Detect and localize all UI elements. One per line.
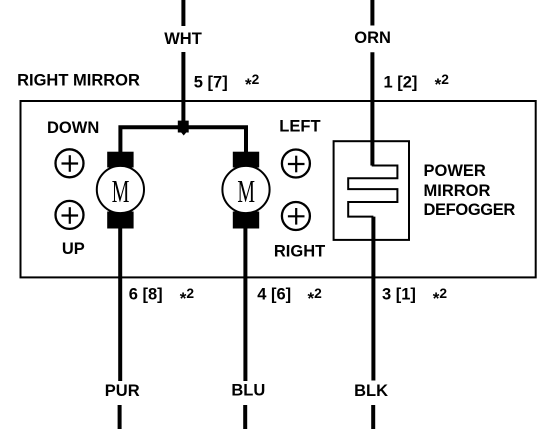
svg-text:DOWN: DOWN xyxy=(47,119,99,137)
svg-text:BLK: BLK xyxy=(354,382,388,400)
svg-text:*2: *2 xyxy=(308,286,323,308)
svg-text:WHT: WHT xyxy=(164,30,202,48)
svg-text:MIRROR: MIRROR xyxy=(424,182,491,200)
svg-text:4 [6]: 4 [6] xyxy=(257,286,291,304)
svg-text:*2: *2 xyxy=(245,72,260,94)
svg-text:PUR: PUR xyxy=(105,382,140,400)
svg-text:DEFOGGER: DEFOGGER xyxy=(424,201,516,219)
svg-text:*2: *2 xyxy=(433,286,448,308)
svg-text:1 [2]: 1 [2] xyxy=(384,74,418,92)
svg-text:3 [1]: 3 [1] xyxy=(382,286,416,304)
svg-text:UP: UP xyxy=(62,240,85,258)
svg-text:ORN: ORN xyxy=(354,29,391,47)
svg-text:RIGHT MIRROR: RIGHT MIRROR xyxy=(17,72,140,90)
svg-text:M: M xyxy=(112,173,130,209)
svg-text:POWER: POWER xyxy=(424,162,486,180)
svg-text:*2: *2 xyxy=(180,286,195,308)
svg-text:6 [8]: 6 [8] xyxy=(129,286,163,304)
svg-text:RIGHT: RIGHT xyxy=(274,242,325,260)
svg-text:BLU: BLU xyxy=(231,381,265,399)
svg-text:5 [7]: 5 [7] xyxy=(194,74,228,92)
svg-text:*2: *2 xyxy=(435,72,450,94)
svg-text:LEFT: LEFT xyxy=(279,117,320,135)
svg-text:M: M xyxy=(237,173,255,209)
